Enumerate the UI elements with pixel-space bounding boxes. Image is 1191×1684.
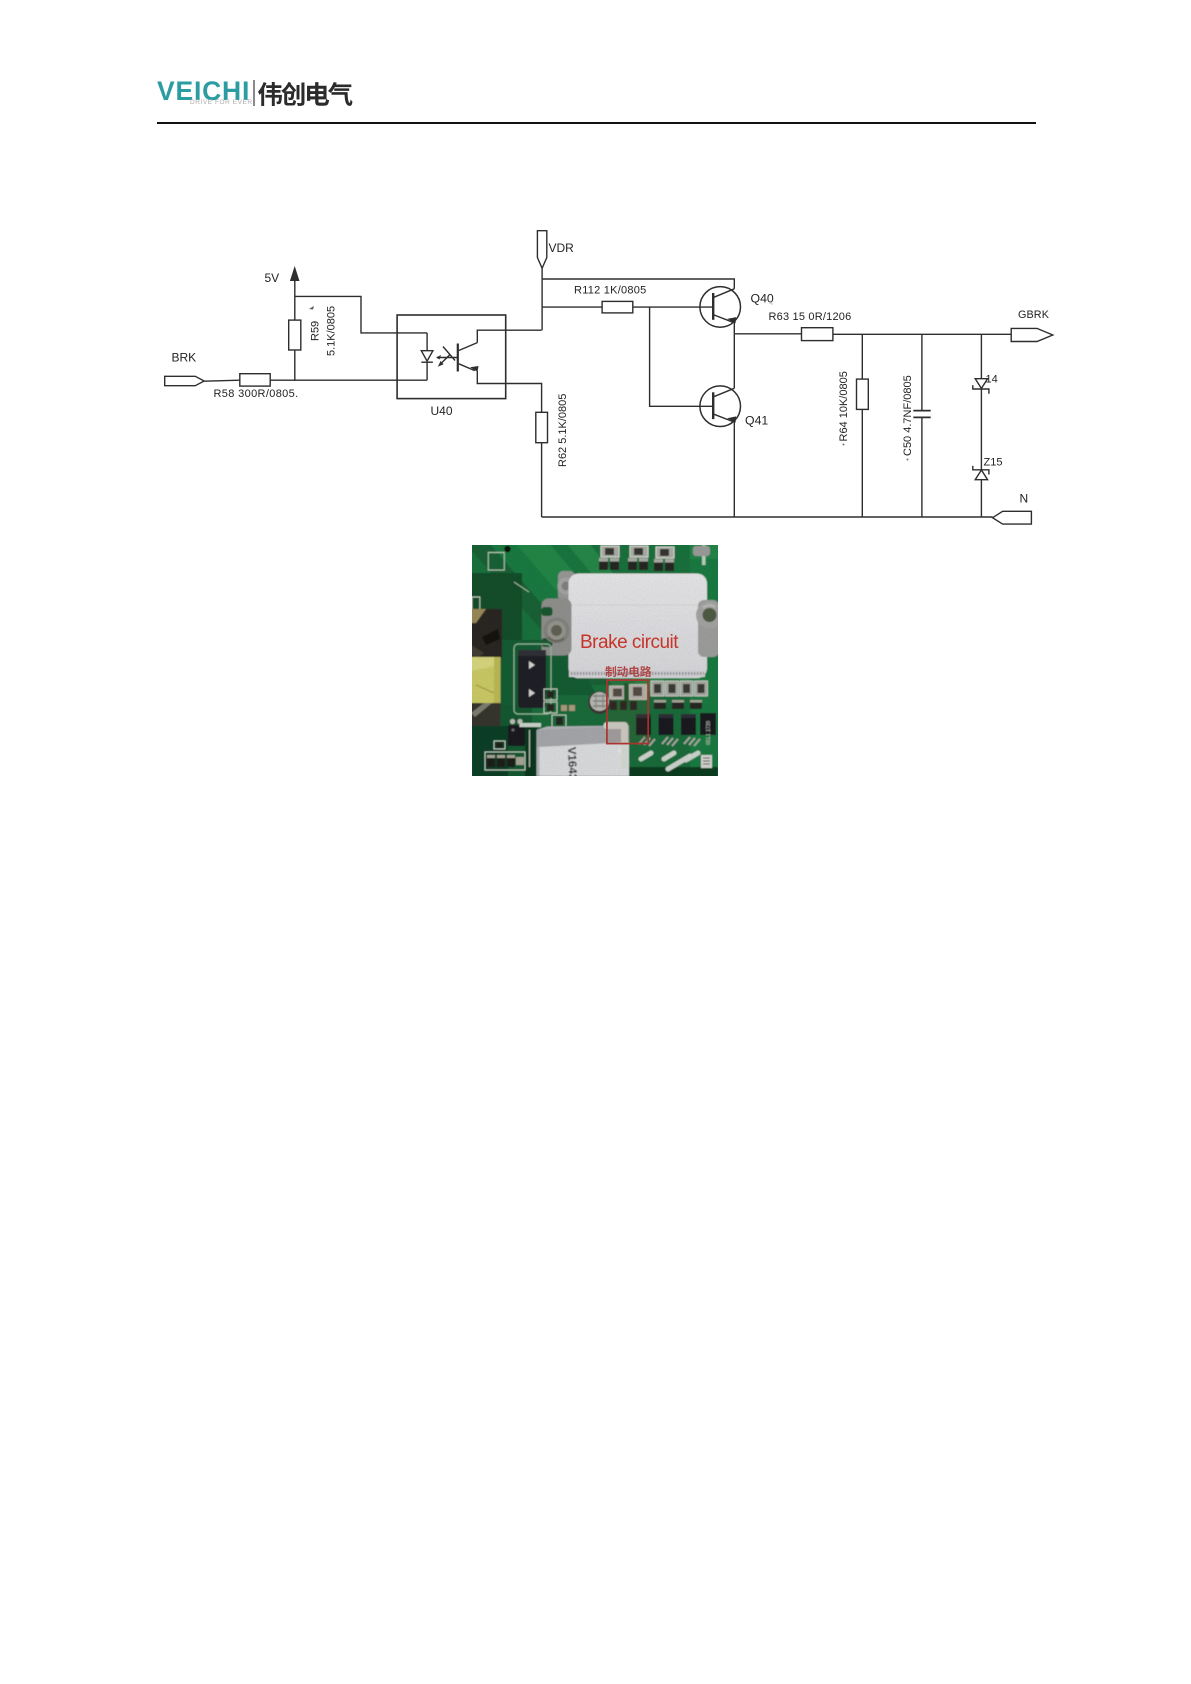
transistor Q41 [700, 386, 741, 427]
optocoupler DIP bottom-left [508, 719, 525, 746]
wire R64 to N rail [861, 409, 863, 517]
wire base node to Q41 base [650, 307, 714, 406]
header horizontal rule [157, 122, 1036, 124]
svg-text:R58 300R/0805.: R58 300R/0805. [214, 388, 299, 400]
transformer dark base [471, 703, 501, 726]
VEICHI logo wordmark [157, 76, 250, 107]
wire R112 to Q40 base [633, 306, 713, 308]
wire VDR vertical [541, 268, 543, 330]
svg-text:.,: ., [769, 299, 773, 306]
TO-252 pins [639, 737, 700, 746]
metal standoff clamp left [542, 599, 572, 656]
svg-text:R63 15 0R/1206: R63 15 0R/1206 [769, 311, 852, 323]
zener diode 14 [980, 334, 982, 378]
resistor R59 [289, 320, 301, 350]
wire VDR to Q40 collector [542, 279, 734, 289]
svg-text:R59: R59 [310, 321, 322, 341]
red annotation rectangle [607, 680, 648, 744]
N rail wire [542, 516, 993, 518]
silkscreen small left edge [472, 597, 480, 618]
resistor R64 [857, 379, 869, 409]
logo divider bar [253, 80, 255, 106]
via dot top-left [504, 546, 510, 552]
small SMD pads right of IC [544, 689, 575, 727]
resistor R112 [602, 301, 633, 313]
wire R58 to U40 LED [270, 379, 427, 381]
wire R59 to BRK net [294, 350, 296, 381]
silkscreen scratch line [514, 582, 529, 592]
transformer yellow body [471, 657, 501, 703]
terminal GBRK [1011, 328, 1053, 341]
PCB right column green [690, 544, 719, 777]
svg-text:U40: U40 [431, 404, 453, 418]
zener diode Z15 [973, 466, 989, 475]
wire 5V net to U40 anode [295, 296, 427, 333]
wire 5V to R59 [294, 281, 296, 320]
svg-text:N: N [1020, 492, 1029, 506]
wire between zeners [980, 389, 982, 470]
terminal BRK [165, 376, 205, 385]
capacitor C50 [921, 334, 923, 410]
PCB green background [471, 544, 719, 777]
transistor Q40 [700, 287, 741, 328]
optocoupler U40 box [397, 315, 506, 399]
PCB bottom-left green [471, 705, 532, 777]
PCB diagonal light streaks [471, 544, 712, 700]
logo tagline DRIVE FOR EVER [190, 99, 253, 106]
svg-text:C50 4.7NF/0805: C50 4.7NF/0805 [902, 375, 914, 456]
dark band left of relay [472, 726, 508, 777]
electrolytic capacitor [588, 691, 611, 714]
svg-text:Q41: Q41 [745, 414, 768, 428]
top SMD cluster 2 [628, 546, 648, 570]
silkscreen vertical line top-right [702, 545, 706, 565]
metal tab behind module top-left [558, 571, 575, 601]
gray relay module bottom [537, 726, 630, 781]
wire Q40 emitter to output node [733, 322, 735, 333]
dark bottom band right [629, 767, 718, 777]
wire R63 to GBRK [833, 333, 1011, 335]
white IGBT module [569, 574, 708, 679]
module pin strip [569, 670, 705, 677]
U40 light arrows [443, 347, 455, 361]
black IC component [518, 650, 546, 708]
metal tab top-right corner [693, 546, 710, 556]
svg-text:GBRK: GBRK [1018, 309, 1050, 321]
silkscreen band left of relay corner [520, 723, 542, 727]
transformer dark winding top [471, 609, 502, 658]
svg-text:VDR: VDR [549, 241, 575, 255]
resistor R62 [536, 412, 548, 442]
svg-text:BRK: BRK [172, 351, 197, 365]
wire output node down to Q41 collector [733, 334, 735, 389]
terminal VDR [537, 231, 546, 269]
wire output node to R63 [734, 333, 801, 335]
svg-text:5V: 5V [265, 271, 280, 285]
resistor R58 [240, 374, 270, 386]
SMD row right-middle B [654, 700, 702, 709]
red Chinese caption 制动电路 [605, 666, 651, 677]
PCB dark region left [471, 573, 522, 648]
silkscreen rect top-left [488, 553, 504, 571]
logo Chinese text 伟创电气 [257, 79, 357, 109]
wire U40 emitter to R62 [477, 371, 541, 412]
U40 LED [426, 333, 428, 351]
svg-text:5.1K/0805: 5.1K/0805 [326, 306, 338, 356]
svg-text:R64 10K/0805: R64 10K/0805 [838, 371, 850, 441]
wire VDR to R112 [542, 306, 602, 308]
white silkscreen L-trace [607, 726, 625, 766]
SMD row right-middle A [651, 681, 708, 696]
bottom-left SMD resistors row [485, 741, 525, 770]
svg-text:14: 14 [986, 374, 998, 386]
svg-text:R62 5.1K/0805: R62 5.1K/0805 [557, 394, 569, 467]
wire R64 branch [861, 334, 863, 379]
svg-text:Z15: Z15 [984, 457, 1003, 469]
wire U40 collector to VDR net [477, 330, 541, 342]
TO-252 transistor row [636, 713, 716, 735]
barcode label bottom-right [701, 755, 712, 768]
top SMD cluster 1 [599, 546, 619, 570]
top SMD cluster 3 [654, 547, 674, 571]
resistor R63 [802, 328, 833, 341]
white diagonal traces bottom-right [641, 753, 698, 769]
photo grain overlay [472, 545, 718, 776]
wire Z15 to N rail [980, 480, 982, 517]
power 5V arrow [294, 269, 296, 283]
wire Q41 emitter to N rail [733, 422, 735, 517]
terminal N [993, 511, 1032, 524]
U40 phototransistor [457, 344, 459, 372]
svg-text:R112 1K/0805: R112 1K/0805 [574, 285, 647, 297]
wire BRK to R58 [204, 380, 240, 381]
schematic drawing [0, 0, 1191, 600]
wire R62 to N rail [541, 443, 543, 517]
SMD optos at red rect [610, 683, 647, 710]
PCB photo [472, 545, 718, 776]
silkscreen outline around IC [514, 644, 551, 714]
metal standoff clamp right [696, 600, 723, 657]
